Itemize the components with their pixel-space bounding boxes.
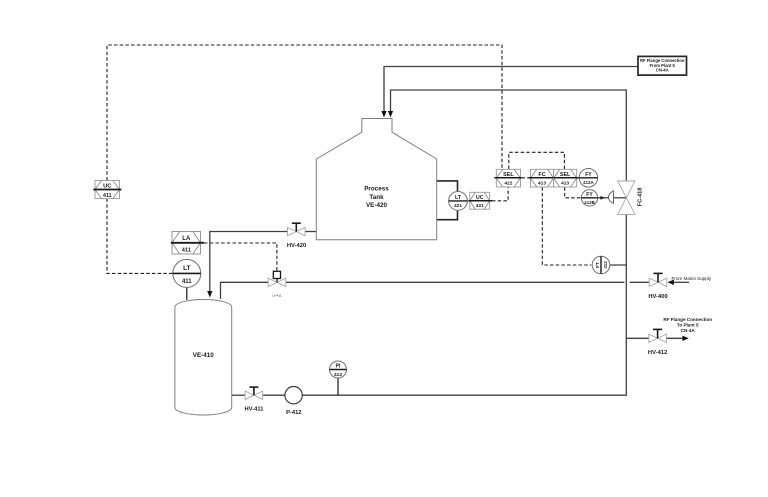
svg-text:HV-400: HV-400: [648, 294, 667, 300]
instrument LA-411: [171, 232, 204, 255]
svg-text:SEL: SEL: [560, 172, 571, 178]
svg-text:FT: FT: [595, 262, 601, 268]
instrument FY-413B: [581, 190, 597, 206]
signal wire: SEL-422 top to SEL-413 top: [509, 152, 565, 169]
svg-text:VE-410: VE-410: [193, 352, 215, 359]
pump P-412: [285, 387, 302, 417]
svg-text:413: 413: [603, 261, 608, 269]
tap line LT-411 to VE-410: [186, 288, 188, 300]
svg-text:411: 411: [182, 247, 191, 253]
tank VE-420: [316, 119, 436, 240]
svg-text:413: 413: [561, 181, 569, 187]
signal wire: FC-413 to FT-413: [542, 187, 591, 265]
svg-text:CN-4A: CN-4A: [681, 328, 696, 333]
node: RF flange connection from plant 5 (box): [638, 56, 687, 75]
arrowhead into VE-420 (left): [381, 111, 386, 118]
arrowhead into VE-420 (right): [388, 111, 393, 118]
svg-text:Process: Process: [364, 186, 389, 193]
pipe: mains supply line through HV-400 and LV-411 to VE-410: [674, 281, 690, 283]
svg-text:FY: FY: [586, 192, 593, 198]
signal wire: SEL-422 to FC-413: [522, 177, 531, 179]
instrument UC-421: [468, 192, 492, 209]
pipe: RF flange inlet to VE-420 top: [384, 67, 638, 113]
valve HV-420: [287, 223, 306, 249]
svg-text:LA: LA: [182, 236, 191, 242]
svg-text:To Plant 5: To Plant 5: [677, 322, 699, 327]
signal wire: dashed loop UC-411 top to SEL-422: [107, 45, 502, 181]
instrument UC-411: [93, 181, 121, 200]
pipe: FC-418 valve outlet down: [625, 214, 627, 395]
svg-text:PI: PI: [336, 363, 341, 369]
svg-text:UC: UC: [476, 195, 484, 201]
valve HV-400: [648, 273, 667, 300]
svg-text:422: 422: [504, 181, 512, 187]
svg-text:HV-420: HV-420: [287, 243, 306, 249]
svg-text:411: 411: [103, 193, 112, 199]
instrument PI-412: [330, 361, 347, 395]
svg-text:Tank: Tank: [369, 194, 384, 201]
valve HV-412: [648, 329, 667, 356]
svg-text:FC: FC: [538, 172, 545, 178]
svg-text:HV-411: HV-411: [244, 407, 264, 413]
svg-text:411: 411: [182, 279, 192, 285]
control valve FC-418: [618, 181, 644, 214]
pipe: recirculation top line to VE-420: [391, 90, 627, 181]
arrowhead mains supply (points left into HV-400): [667, 280, 674, 285]
svg-text:421: 421: [454, 203, 462, 209]
instrument SEL-422: [494, 169, 521, 187]
instrument LT-411: [173, 259, 201, 287]
actuator link FY-413B to FC-418: [598, 191, 627, 204]
svg-text:UC: UC: [103, 183, 112, 189]
svg-text:SEL: SEL: [503, 172, 514, 178]
pipe: FT-413 tap to riser: [610, 264, 627, 266]
svg-text:413A: 413A: [583, 180, 594, 185]
svg-text:413B: 413B: [584, 200, 595, 205]
svg-text:413: 413: [538, 181, 546, 187]
svg-text:LT: LT: [455, 195, 462, 201]
valve LV-411 with actuator: [268, 271, 286, 297]
instrument SEL-413: [554, 169, 579, 187]
svg-text:LV-411: LV-411: [272, 293, 281, 297]
pipe: VE-420 drain through HV-420 to VE-410: [305, 231, 316, 233]
signal wire: LA-411 to LV-411 actuator: [204, 243, 277, 271]
valve HV-411: [244, 387, 264, 413]
pipe: VE-410 outlet through HV-411 and P-412 to riser: [232, 394, 246, 396]
pipe: HV-412 branch to plant 5: [626, 337, 649, 339]
signal wire: UC-421 to SEL-422: [492, 187, 508, 201]
svg-text:FY: FY: [585, 172, 592, 178]
svg-text:421: 421: [476, 203, 484, 209]
svg-text:P-412: P-412: [286, 410, 301, 416]
instrument FC-413: [529, 169, 554, 187]
bracket LT-421 to VE-420: [437, 181, 458, 220]
svg-text:RF Flange Connection: RF Flange Connection: [663, 317, 712, 322]
tank VE-410: [175, 300, 232, 416]
signal wire: SEL-413 to FY-413B: [565, 187, 581, 198]
signal wire: UC-411 bottom to LT-411: [107, 199, 173, 274]
svg-text:412: 412: [334, 372, 342, 378]
arrowhead into VE-410: [207, 291, 212, 298]
instrument FT-413 (rotated): [592, 256, 610, 274]
svg-text:From Mains Supply: From Mains Supply: [672, 276, 712, 281]
instrument LT-421: [449, 192, 468, 211]
svg-text:CN-4A: CN-4A: [656, 67, 669, 72]
svg-text:HV-412: HV-412: [648, 350, 667, 356]
svg-text:LT: LT: [183, 265, 190, 272]
instrument FY-413A: [579, 169, 598, 188]
svg-text:FC-418: FC-418: [638, 188, 644, 207]
arrowhead to plant 5 (points right): [682, 336, 688, 341]
svg-text:VE-420: VE-420: [366, 202, 388, 209]
